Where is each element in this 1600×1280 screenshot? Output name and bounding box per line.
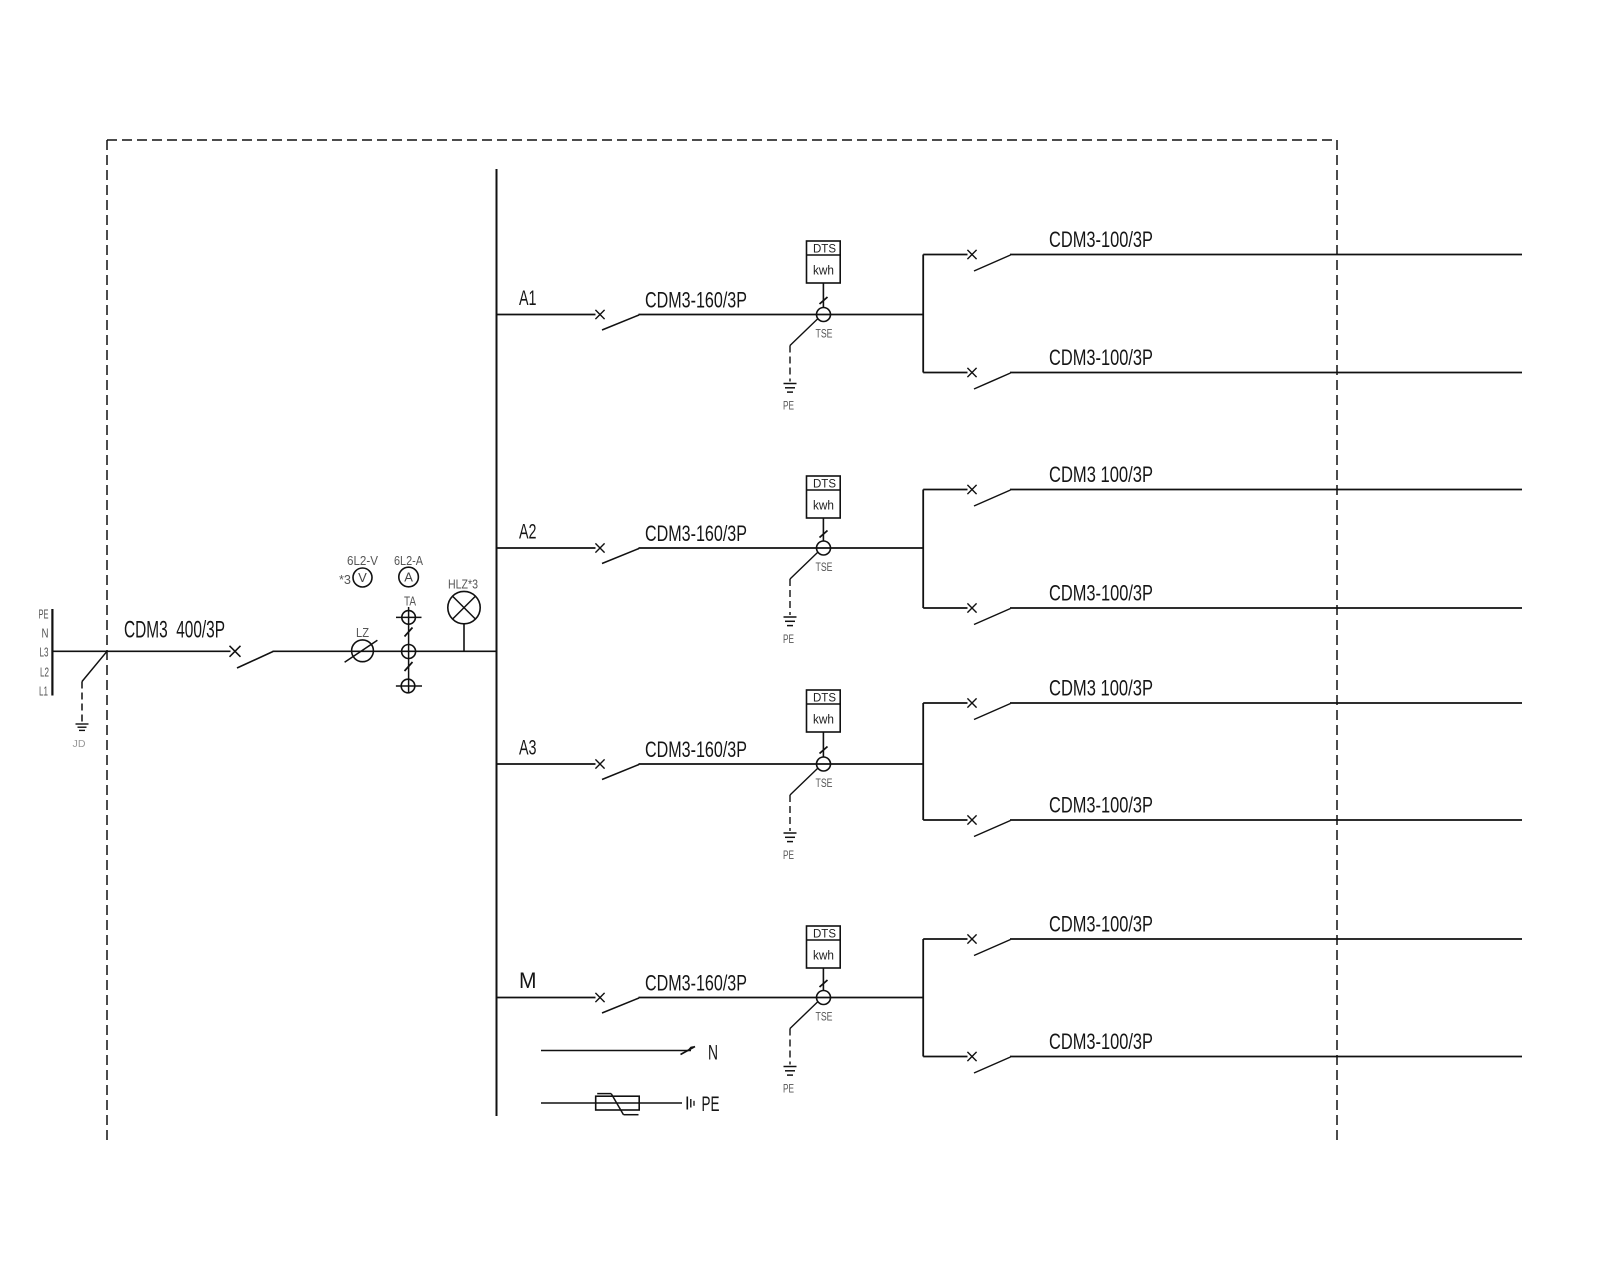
wire PE drop dashed feeder M [789, 1029, 791, 1065]
svg-text:TSE: TSE [816, 327, 833, 341]
svg-text:DTS: DTS [813, 927, 836, 941]
svg-text:L2: L2 [40, 666, 49, 680]
wire top branch feeder A3 (outgoing) [1010, 702, 1522, 704]
breaker Q4 CDM3-160/3P (switch symbol) [595, 993, 639, 1013]
svg-text:PE: PE [39, 608, 49, 622]
svg-text:*3: *3 [339, 572, 351, 587]
ammeter 6L2-A [399, 567, 419, 587]
svg-text:CDM3-160/3P: CDM3-160/3P [645, 737, 747, 762]
wire top branch feeder M (node to switch) [923, 938, 967, 940]
svg-text:A1: A1 [519, 287, 537, 310]
legend neutral conductor N [541, 1046, 695, 1055]
breaker top branch feeder A1 CDM3-100/3P [967, 250, 1010, 271]
wire feeder A3 from busbar to breaker [497, 763, 596, 765]
current transformer TSE feeder M [817, 991, 831, 1005]
breaker bottom branch feeder A3 CDM3-100/3P [967, 815, 1010, 836]
svg-text:TSE: TSE [816, 776, 833, 790]
polarity tick on meter stem M [820, 980, 828, 987]
ground PE feeder A3 [784, 833, 797, 842]
enclosure border right (dashed) [1336, 140, 1338, 1144]
ground service earth [76, 724, 89, 730]
wire bottom branch feeder A2 (outgoing) [1010, 607, 1522, 609]
wire PE drop diagonal feeder A3 [790, 769, 818, 796]
legend PE conductor wire [541, 1102, 682, 1104]
svg-text:CDM3-100/3P: CDM3-100/3P [1049, 581, 1153, 606]
wire PE drop dashed feeder A2 [789, 579, 791, 615]
wire meter stem feeder A3 [822, 732, 824, 757]
breaker top branch feeder M CDM3-100/3P [967, 934, 1010, 955]
wire PE drop diagonal feeder M [790, 1002, 818, 1029]
svg-text:CDM3-100/3P: CDM3-100/3P [1049, 912, 1153, 937]
svg-text:CDM3-100/3P: CDM3-100/3P [1049, 1029, 1153, 1054]
wire bottom branch feeder A1 (node to switch) [923, 372, 967, 374]
svg-text:PE: PE [783, 848, 794, 862]
svg-text:CDM3-160/3P: CDM3-160/3P [645, 521, 747, 546]
svg-text:TSE: TSE [816, 560, 833, 574]
svg-text:A2: A2 [519, 521, 537, 544]
voltmeter 6L2-V [353, 568, 372, 587]
ground PE feeder A2 [784, 617, 797, 626]
svg-text:N: N [42, 627, 49, 641]
svg-text:CDM3-100/3P: CDM3-100/3P [1049, 793, 1153, 818]
current transformer TSE feeder A1 [817, 308, 831, 322]
node branch split feeder M [922, 939, 924, 1057]
wire feeder A3 from breaker to branch node [639, 763, 924, 765]
svg-text:L3: L3 [40, 646, 49, 660]
wire main incoming line (right of main breaker) [273, 650, 497, 652]
svg-text:kwh: kwh [813, 712, 834, 727]
wire top branch feeder A2 (node to switch) [923, 489, 967, 491]
wire bottom branch feeder A1 (outgoing) [1010, 372, 1522, 374]
polarity tick upper [405, 628, 413, 637]
svg-text:HLZ*3: HLZ*3 [448, 577, 478, 592]
wire top branch feeder M (outgoing) [1010, 938, 1522, 940]
svg-text:PE: PE [702, 1093, 720, 1116]
wire feeder A1 from busbar to breaker [497, 314, 596, 316]
wire PE drop dashed feeder A1 [789, 346, 791, 382]
polarity tick on meter stem A1 [820, 297, 828, 304]
wire feeder A1 from breaker to branch node [639, 314, 924, 316]
current transformer TA top circle [396, 611, 422, 625]
svg-text:6L2-A: 6L2-A [394, 553, 423, 568]
wire lamp stem [463, 624, 465, 652]
svg-text:CDM3-100/3P: CDM3-100/3P [1049, 227, 1153, 252]
breaker bottom branch feeder A2 CDM3-100/3P [967, 603, 1010, 624]
node branch split feeder A3 [922, 703, 924, 820]
wire bottom branch feeder M (node to switch) [923, 1056, 967, 1058]
wire earth tap (dashed) [81, 682, 83, 724]
svg-text:CDM3 100/3P: CDM3 100/3P [1049, 462, 1153, 487]
wire feeder M from breaker to branch node [639, 997, 924, 999]
wire meter stem feeder M [822, 968, 824, 991]
svg-text:M: M [519, 968, 537, 993]
wire bottom branch feeder A3 (node to switch) [923, 819, 967, 821]
wire top branch feeder A1 (outgoing) [1010, 254, 1522, 256]
svg-text:L1: L1 [39, 685, 48, 699]
wire feeder A2 from busbar to breaker [497, 547, 596, 549]
ground PE feeder M [784, 1067, 797, 1076]
current transformer TA middle circle on main line [402, 645, 416, 659]
polarity tick on meter stem A3 [820, 747, 828, 754]
current transformer TSE feeder A2 [817, 541, 831, 555]
svg-text:CDM3-160/3P: CDM3-160/3P [645, 288, 747, 313]
meter U4 DTS kWh meter box [807, 926, 841, 968]
polarity tick lower [405, 662, 413, 671]
indicator lamp HLZ*3 [448, 591, 480, 623]
svg-text:kwh: kwh [813, 948, 834, 963]
wire bottom branch feeder M (outgoing) [1010, 1056, 1522, 1058]
meter U3 DTS kWh meter box [807, 690, 841, 732]
meter U1 DTS kWh meter box [807, 241, 841, 283]
wire feeder M from busbar to breaker [497, 997, 596, 999]
svg-text:DTS: DTS [813, 242, 836, 256]
svg-text:kwh: kwh [813, 263, 834, 278]
wire meter stem feeder A1 [822, 283, 824, 308]
svg-text:PE: PE [783, 632, 794, 646]
wire top branch feeder A2 (outgoing) [1010, 489, 1522, 491]
wire PE drop dashed feeder A3 [789, 795, 791, 831]
svg-text:CDM3-160/3P: CDM3-160/3P [645, 971, 747, 996]
svg-text:TA: TA [404, 594, 416, 609]
legend PE terminal bars [687, 1097, 694, 1110]
svg-text:A3: A3 [519, 737, 537, 760]
svg-text:CDM3 400/3P: CDM3 400/3P [124, 617, 225, 644]
breaker top branch feeder A2 CDM3-100/3P [967, 485, 1010, 506]
legend PE device rectangle with diagonal [596, 1094, 640, 1115]
breaker bottom branch feeder A1 CDM3-100/3P [967, 368, 1010, 389]
wire bottom branch feeder A3 (outgoing) [1010, 819, 1522, 821]
wire main incoming line (left of main breaker) [52, 650, 230, 652]
current transformer TSE feeder A3 [817, 757, 831, 771]
wire bottom branch feeder A2 (node to switch) [923, 607, 967, 609]
wire PE drop diagonal feeder A2 [790, 553, 818, 580]
svg-text:DTS: DTS [813, 691, 836, 705]
svg-text:A: A [404, 570, 413, 585]
enclosure border top (dashed) [107, 139, 1337, 141]
breaker Q1 CDM3-160/3P (switch symbol) [595, 310, 639, 330]
breaker QF main CDM3 400/3P [230, 646, 274, 668]
svg-text:PE: PE [783, 399, 794, 413]
node branch split feeder A1 [922, 255, 924, 373]
breaker Q3 CDM3-160/3P (switch symbol) [595, 759, 639, 779]
node branch split feeder A2 [922, 490, 924, 609]
wire PE drop diagonal feeder A1 [790, 319, 818, 346]
busbar (vertical distribution bus) [496, 169, 498, 1116]
svg-text:DTS: DTS [813, 477, 836, 491]
wire feeder A2 from breaker to branch node [639, 547, 924, 549]
node incoming terminal bus [51, 609, 53, 696]
breaker top branch feeder A3 CDM3-100/3P [967, 698, 1010, 719]
wire TA instrument string vertical [408, 607, 410, 693]
wire top branch feeder A1 (node to switch) [923, 254, 967, 256]
meter LZ (circle with slash) [345, 640, 378, 662]
current transformer TA bottom circle [396, 679, 422, 693]
ground PE feeder A1 [784, 384, 797, 393]
svg-text:V: V [358, 570, 367, 585]
svg-text:6L2-V: 6L2-V [347, 553, 378, 568]
wire earth tap diagonal at service entrance [82, 651, 107, 681]
enclosure border left (dashed) [106, 140, 108, 1142]
svg-text:TSE: TSE [816, 1010, 833, 1024]
svg-text:JD: JD [73, 739, 86, 750]
meter U2 DTS kWh meter box [807, 476, 841, 518]
wire top branch feeder A3 (node to switch) [923, 702, 967, 704]
svg-text:kwh: kwh [813, 498, 834, 513]
svg-text:LZ: LZ [356, 625, 369, 640]
svg-text:CDM3 100/3P: CDM3 100/3P [1049, 676, 1153, 701]
svg-text:PE: PE [783, 1082, 794, 1096]
polarity tick on meter stem A2 [820, 531, 828, 538]
breaker Q2 CDM3-160/3P (switch symbol) [595, 543, 639, 563]
svg-text:N: N [708, 1042, 718, 1065]
svg-text:CDM3-100/3P: CDM3-100/3P [1049, 345, 1153, 370]
wire meter stem feeder A2 [822, 518, 824, 541]
breaker bottom branch feeder M CDM3-100/3P [967, 1052, 1010, 1073]
